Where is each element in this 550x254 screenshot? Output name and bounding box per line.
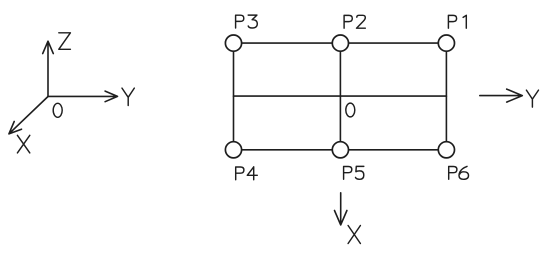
label P1: [448, 15, 466, 28]
label X bottom: [348, 226, 360, 244]
mid vertical line P2-P5: [339, 43, 341, 150]
label X left: [17, 135, 29, 153]
point P5 circle: [332, 142, 348, 158]
axis Z (vertical arrow up): [43, 41, 54, 96]
axis X (diagonal arrow down-left): [9, 97, 48, 134]
label P3: [236, 15, 258, 28]
label P5: [344, 166, 364, 179]
axis Y right (horizontal arrow right): [480, 89, 523, 102]
point P3 circle: [225, 35, 241, 51]
label P6: [449, 166, 469, 179]
label O center: [346, 103, 355, 117]
label P2: [344, 15, 365, 28]
label Y right: [526, 90, 538, 107]
point P2 circle: [332, 35, 348, 51]
point P4 circle: [225, 142, 241, 158]
mid horizontal line: [234, 95, 447, 97]
point P6 circle: [438, 142, 454, 158]
label Z: [59, 33, 71, 50]
label Y left: [122, 88, 134, 105]
rectangle outline P3-P1-P6-P4: [234, 43, 447, 150]
axis X bottom (vertical arrow down): [335, 193, 347, 225]
axis Y left (horizontal arrow right): [48, 91, 118, 102]
point P1 circle: [438, 35, 454, 51]
label P4: [236, 167, 258, 180]
label O left origin: [53, 103, 62, 117]
